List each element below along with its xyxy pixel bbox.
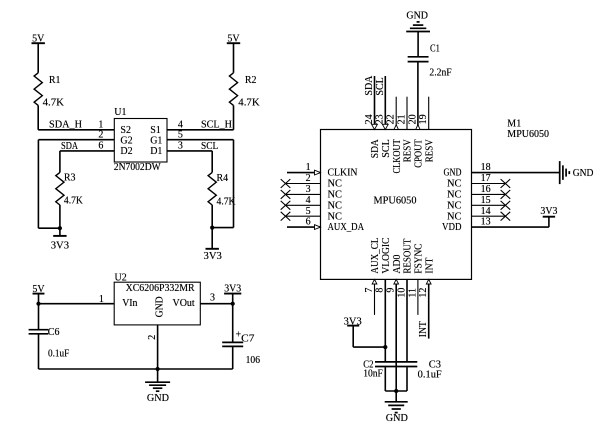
svg-text:S2: S2	[120, 125, 131, 136]
svg-text:XC6206P332MR: XC6206P332MR	[126, 283, 195, 294]
svg-text:4.7K: 4.7K	[238, 98, 260, 109]
svg-text:17: 17	[481, 173, 491, 184]
svg-text:RESOUT: RESOUT	[403, 239, 414, 274]
svg-text:SDA: SDA	[370, 138, 381, 158]
svg-text:C7: C7	[241, 333, 254, 344]
svg-text:20: 20	[407, 114, 418, 124]
svg-text:2.2nF: 2.2nF	[429, 67, 452, 78]
svg-text:4.7K: 4.7K	[64, 196, 84, 207]
svg-text:FSYNC: FSYNC	[414, 243, 425, 273]
svg-text:22: 22	[386, 114, 397, 124]
svg-text:NC: NC	[328, 200, 343, 211]
svg-text:1: 1	[306, 162, 311, 173]
svg-text:NC: NC	[447, 179, 462, 190]
svg-text:10nF: 10nF	[363, 368, 383, 379]
svg-text:9: 9	[386, 288, 397, 293]
svg-text:INT: INT	[424, 258, 435, 274]
svg-text:INT: INT	[418, 321, 429, 337]
svg-text:R4: R4	[217, 173, 229, 184]
svg-text:SCL: SCL	[375, 77, 386, 95]
svg-text:GND: GND	[147, 393, 169, 404]
svg-text:8: 8	[375, 288, 386, 293]
svg-text:C6: C6	[48, 327, 60, 338]
svg-text:5: 5	[178, 130, 183, 141]
svg-text:RESV: RESV	[424, 139, 435, 163]
svg-text:SDA: SDA	[61, 141, 79, 152]
svg-text:MPU6050: MPU6050	[374, 195, 417, 206]
svg-text:SDA_H: SDA_H	[49, 120, 82, 131]
svg-text:2N7002DW: 2N7002DW	[114, 162, 161, 173]
svg-text:3V3: 3V3	[540, 206, 557, 217]
svg-text:VLOGIC: VLOGIC	[381, 237, 392, 273]
svg-text:RESV: RESV	[403, 139, 414, 163]
svg-text:NC: NC	[328, 179, 343, 190]
svg-text:3V3: 3V3	[204, 251, 222, 262]
svg-text:16: 16	[481, 184, 491, 195]
svg-text:NC: NC	[328, 190, 343, 201]
svg-text:2: 2	[98, 130, 103, 141]
svg-text:SCL: SCL	[201, 141, 218, 152]
svg-text:SCL: SCL	[381, 139, 392, 158]
svg-text:24: 24	[364, 114, 375, 124]
svg-text:2: 2	[147, 335, 158, 340]
svg-text:6: 6	[98, 141, 103, 152]
svg-text:SCL_H: SCL_H	[201, 120, 232, 131]
svg-text:AUX_CL: AUX_CL	[370, 238, 381, 274]
svg-text:SDA: SDA	[364, 75, 375, 96]
svg-text:15: 15	[481, 195, 491, 206]
svg-text:1: 1	[99, 294, 104, 305]
svg-text:G1: G1	[150, 136, 162, 147]
svg-text:AD0: AD0	[392, 255, 403, 274]
svg-text:NC: NC	[447, 200, 462, 211]
svg-text:GND: GND	[406, 11, 428, 22]
svg-text:VDD: VDD	[442, 222, 462, 233]
svg-text:R3: R3	[64, 173, 76, 184]
svg-text:0.1uF: 0.1uF	[418, 370, 442, 381]
svg-text:3: 3	[306, 184, 311, 195]
svg-text:D2: D2	[120, 146, 132, 157]
svg-text:19: 19	[418, 114, 429, 124]
svg-text:U2: U2	[115, 272, 127, 283]
svg-text:4: 4	[306, 195, 311, 206]
svg-text:R1: R1	[49, 75, 61, 86]
svg-text:S1: S1	[150, 125, 161, 136]
svg-text:NC: NC	[447, 190, 462, 201]
svg-text:G2: G2	[120, 136, 132, 147]
svg-text:CLKOUT: CLKOUT	[392, 139, 403, 173]
svg-text:AUX_DA: AUX_DA	[328, 222, 365, 233]
svg-text:4.7K: 4.7K	[217, 197, 237, 208]
svg-text:GND: GND	[444, 168, 462, 179]
svg-text:21: 21	[396, 114, 407, 124]
svg-text:13: 13	[481, 217, 491, 228]
svg-text:R2: R2	[245, 75, 257, 86]
svg-text:NC: NC	[328, 211, 343, 222]
svg-text:D1: D1	[150, 146, 162, 157]
svg-text:6: 6	[306, 217, 311, 228]
svg-text:VIn: VIn	[122, 298, 137, 309]
svg-text:106: 106	[246, 355, 260, 366]
svg-text:GND: GND	[154, 296, 165, 317]
svg-text:CPOUT: CPOUT	[414, 139, 425, 168]
svg-text:18: 18	[481, 162, 491, 173]
svg-text:0.1uF: 0.1uF	[48, 348, 70, 359]
svg-text:3: 3	[210, 293, 215, 304]
svg-text:4.7K: 4.7K	[43, 98, 65, 109]
svg-text:14: 14	[481, 206, 491, 217]
svg-text:3V3: 3V3	[51, 241, 69, 252]
svg-text:MPU6050: MPU6050	[507, 129, 549, 140]
svg-text:2: 2	[306, 173, 311, 184]
svg-text:7: 7	[364, 288, 375, 293]
svg-text:23: 23	[375, 114, 386, 124]
svg-text:5: 5	[306, 206, 311, 217]
svg-text:C1: C1	[430, 43, 440, 54]
svg-text:NC: NC	[447, 211, 462, 222]
svg-text:VOut: VOut	[173, 298, 195, 309]
svg-text:M1: M1	[507, 118, 521, 129]
svg-text:12: 12	[418, 288, 429, 298]
svg-text:CLKIN: CLKIN	[328, 168, 358, 179]
svg-text:11: 11	[407, 288, 418, 298]
svg-text:GND: GND	[573, 168, 594, 179]
svg-text:10: 10	[396, 288, 407, 298]
svg-text:U1: U1	[114, 107, 126, 118]
svg-text:GND: GND	[386, 413, 408, 424]
svg-text:3: 3	[178, 141, 183, 152]
